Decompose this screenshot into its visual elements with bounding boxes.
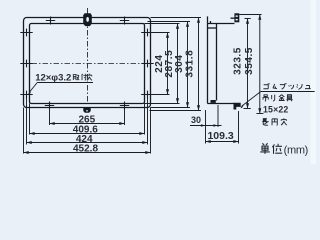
horizontal centerline xyxy=(21,63,150,65)
dim line 304 xyxy=(174,22,189,108)
svg-text:354.5: 354.5 xyxy=(244,47,255,75)
side view flange bottom block xyxy=(211,100,216,103)
top hanging bracket black with oval hole xyxy=(83,13,92,26)
mounting hole bottom edge 2 xyxy=(120,102,129,110)
ext h hole row top xyxy=(141,32,169,34)
mounting hole right edge 1 xyxy=(141,29,153,37)
svg-text:15×22: 15×22 xyxy=(263,104,288,114)
svg-text:109.3: 109.3 xyxy=(207,130,233,142)
dimension 265 xyxy=(50,114,125,125)
side view top bracket xyxy=(231,13,240,22)
leader to bracket note xyxy=(240,92,314,109)
vertical centerline xyxy=(87,8,89,104)
note line1 gomu bushu xyxy=(263,83,269,88)
right edge light strip xyxy=(311,0,317,164)
mounting hole left edge 3 xyxy=(20,91,32,99)
svg-text:452.8: 452.8 xyxy=(73,143,98,154)
note line4 oblong hole xyxy=(262,119,268,126)
dim 109.3 xyxy=(206,111,239,144)
unit label tan-i (mm) xyxy=(260,143,282,154)
side view flange back xyxy=(216,24,218,101)
svg-text:(mm): (mm) xyxy=(284,144,308,156)
ext v flange right xyxy=(150,108,152,154)
note line2 tsuri kanagu xyxy=(263,95,269,101)
front view inner opening rect xyxy=(30,24,145,104)
bottom hanging bracket black xyxy=(83,108,90,113)
dimension 409.6 xyxy=(30,124,145,135)
side view bottom bracket xyxy=(234,103,241,110)
dim line 331.8 xyxy=(185,18,200,111)
dimension 424 xyxy=(27,134,148,145)
ext h outer bottom xyxy=(151,107,191,109)
ext v body left xyxy=(26,98,28,145)
front view outer flange rect xyxy=(24,18,151,108)
ext h outer top xyxy=(151,17,202,19)
mounting hole right edge 2 xyxy=(141,60,153,68)
ext h hole row bottom xyxy=(141,94,169,96)
ext v opening left xyxy=(29,104,31,135)
side view body bottom xyxy=(208,103,236,105)
dim 354.5 xyxy=(239,15,263,114)
side view top tick xyxy=(210,21,212,24)
ext h inner bottom xyxy=(145,103,180,105)
dimension 452.8 xyxy=(24,143,151,154)
label underline xyxy=(37,82,93,84)
svg-text:12×φ3.2: 12×φ3.2 xyxy=(35,73,71,84)
ext v body right xyxy=(147,98,149,145)
mounting hole right edge 3 xyxy=(141,91,153,99)
dim 30 xyxy=(190,105,222,144)
ext h inner top xyxy=(145,23,180,25)
ext h overall bottom xyxy=(150,110,202,112)
side view body top xyxy=(208,23,235,25)
svg-text:304: 304 xyxy=(174,55,185,73)
ext v opening right xyxy=(144,104,146,135)
svg-text:331.8: 331.8 xyxy=(185,50,196,78)
ext h body top xyxy=(148,21,191,23)
mounting hole left edge 2 xyxy=(20,60,32,68)
mounting hole left edge 1 xyxy=(20,29,32,37)
leader to lower-left hole xyxy=(29,83,37,93)
dim 323.5 xyxy=(232,19,250,109)
mounting hole top edge 2 xyxy=(120,17,129,25)
dim line 287.5 xyxy=(164,24,179,104)
svg-text:323.5: 323.5 xyxy=(232,47,243,75)
side view front face xyxy=(207,16,209,103)
ext v flange left xyxy=(23,108,25,154)
side view flange cap xyxy=(208,27,216,29)
svg-text:30: 30 xyxy=(191,115,201,125)
mounting hole bottom edge 1 xyxy=(45,102,54,110)
ext v hole right xyxy=(124,109,126,126)
ext v hole left xyxy=(49,109,51,126)
kanji tori-tsuke-ana xyxy=(73,75,79,81)
mounting hole top edge 1 xyxy=(46,17,55,25)
dim line 224 xyxy=(154,33,169,95)
